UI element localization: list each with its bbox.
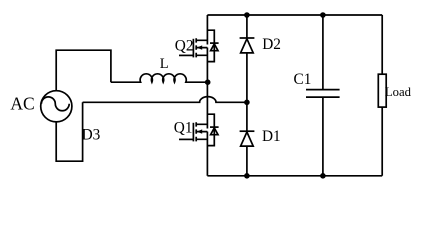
Q2 drain/body/source stubs — [196, 40, 207, 55]
Q1 channel dashes — [195, 122, 197, 141]
AC source — [41, 91, 72, 122]
Q2 drain lead — [206, 15, 208, 45]
C1 bottom lead — [322, 97, 324, 176]
node: bottom rail / D1 anode — [244, 173, 250, 179]
wire: top rail (positive bus) — [207, 14, 382, 16]
Q2 channel dashes — [195, 38, 197, 57]
Q1 body-diode cathode bar — [210, 126, 219, 128]
Q1 source lead — [206, 132, 208, 176]
diode D2 — [240, 15, 255, 53]
D2 triangle — [241, 39, 254, 53]
svg-text:L: L — [160, 56, 169, 72]
Q1 drain/body/source stubs — [196, 124, 207, 139]
inductor L — [111, 74, 207, 82]
node: bridge midpoint (AC return / D1-D2) — [244, 100, 250, 106]
Load body — [378, 74, 386, 107]
Q2 gate lead — [179, 54, 193, 56]
D1 cathode bar — [240, 130, 255, 132]
transistor Q1 (MOSFET with body diode) — [179, 82, 219, 176]
node: top rail / D2 cathode — [244, 12, 250, 18]
svg-text:Load: Load — [385, 85, 412, 99]
Q2 body-diode branch — [207, 30, 214, 61]
C1 bottom plate — [306, 96, 340, 98]
diode D1 — [240, 131, 255, 176]
C1 top plate — [306, 89, 340, 91]
Q2 body-diode cathode bar — [210, 42, 219, 44]
svg-text:C1: C1 — [294, 71, 312, 88]
svg-text:AC: AC — [10, 94, 34, 114]
svg-text:D3: D3 — [82, 127, 101, 144]
Q1 body-diode branch — [207, 114, 214, 145]
node: inductor / Q2 source / Q1 drain junction — [205, 79, 211, 85]
resistor Load — [378, 15, 386, 176]
wire: AC top terminal up, right, down to inductor — [56, 50, 111, 90]
Q2 body-diode triangle — [211, 44, 218, 51]
Q2 gate electrode — [192, 39, 194, 58]
Q1 body-diode triangle — [211, 128, 218, 135]
Q1 body arrow — [197, 129, 203, 133]
Q1 gate electrode — [192, 123, 194, 142]
D1 triangle — [241, 132, 254, 146]
svg-text:Q1: Q1 — [174, 119, 193, 136]
wire: bottom rail (negative bus) — [207, 175, 382, 177]
node: bottom rail / C1 — [320, 173, 326, 179]
Q1 gate lead — [179, 138, 193, 140]
D1 anode lead — [246, 146, 248, 176]
D2 cathode bar — [240, 37, 255, 39]
svg-text:D2: D2 — [262, 36, 281, 53]
Q1 drain lead — [206, 82, 208, 128]
D2 cathode lead — [246, 15, 248, 38]
Q2 source lead — [206, 48, 208, 83]
wire: bridge midpoint vertical D2 anode to D1 cathode — [246, 53, 248, 131]
Q2 body arrow — [197, 45, 203, 49]
Load bottom lead — [381, 107, 383, 176]
C1 top lead — [322, 15, 324, 90]
wire: AC bottom terminal down, right, up (D3 branch) — [56, 102, 82, 161]
svg-text:Q2: Q2 — [175, 37, 194, 54]
wire: AC return to bridge midpoint with crossover hump — [83, 97, 247, 103]
transistor Q2 (MOSFET with body diode) — [179, 15, 219, 82]
Load top lead — [381, 15, 383, 74]
node: top rail / C1 — [320, 12, 326, 18]
capacitor C1 — [306, 15, 340, 176]
svg-text:D1: D1 — [262, 128, 281, 145]
